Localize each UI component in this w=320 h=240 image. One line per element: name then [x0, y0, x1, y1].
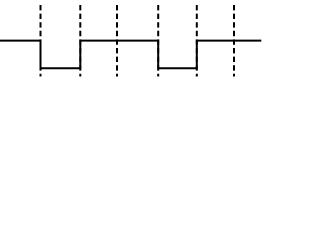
- dashed time boundary t6: [233, 5, 235, 77]
- dashed time boundary t1: [40, 5, 42, 77]
- dashed time boundary t2: [79, 5, 81, 77]
- signal waveform trace: [0, 41, 261, 69]
- dashed time boundary t5: [196, 5, 198, 77]
- dashed time boundary t4: [157, 5, 159, 77]
- dashed time boundary t3: [116, 5, 118, 77]
